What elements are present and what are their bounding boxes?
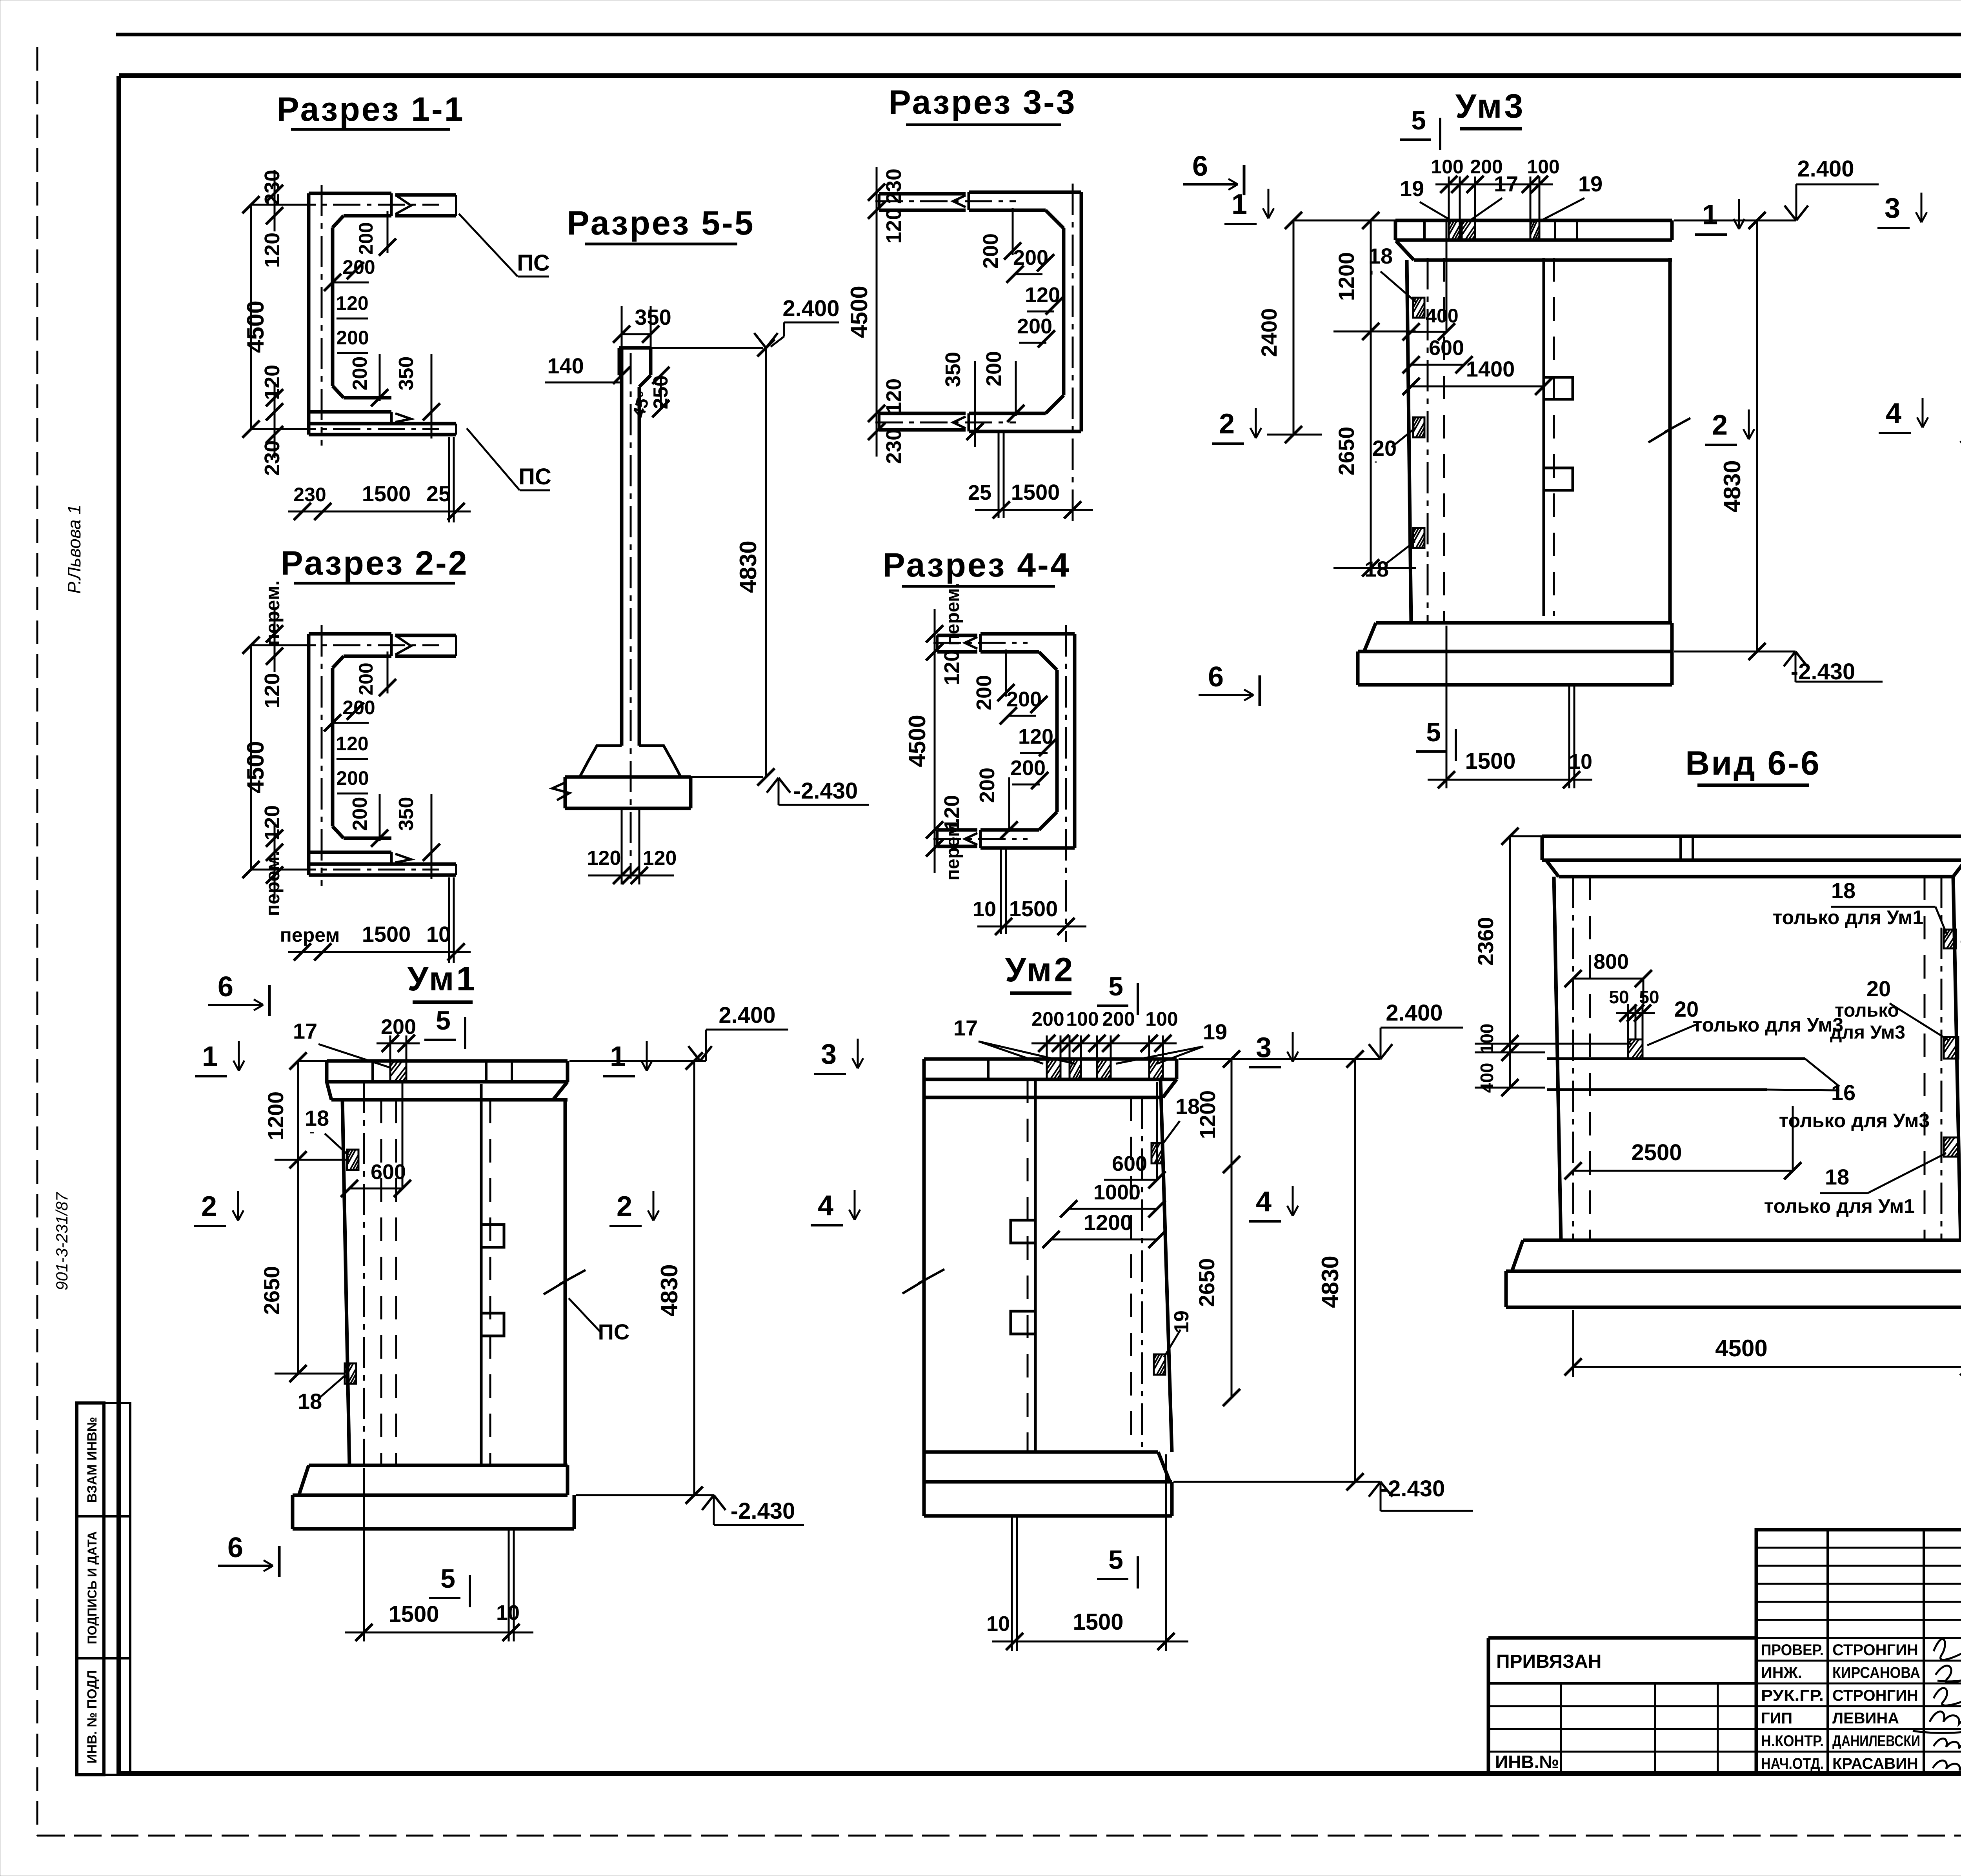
- bottom joint wedge: [390, 852, 393, 864]
- svg-text:200: 200: [336, 767, 369, 789]
- svg-text:1200: 1200: [1084, 1210, 1133, 1235]
- svg-text:120: 120: [940, 650, 964, 685]
- svg-text:200: 200: [972, 675, 996, 710]
- base slab break: [552, 782, 569, 800]
- main frame top: [119, 73, 1961, 78]
- svg-text:50: 50: [1639, 987, 1659, 1007]
- Vid 6-6 left wall: [1554, 877, 1561, 1240]
- Um2 level 2.400: [1179, 1058, 1381, 1060]
- svg-text:230: 230: [882, 169, 906, 204]
- main frame left: [116, 76, 121, 1774]
- Um3 left dim chains: [1370, 220, 1372, 331]
- top precast part: [879, 192, 966, 196]
- bottom slab centerline: [288, 428, 439, 430]
- svg-text:СТРОНГИН: СТРОНГИН: [1832, 1687, 1918, 1704]
- svg-text:5: 5: [1411, 106, 1426, 135]
- gap lines: [448, 437, 450, 522]
- top flange outer: [309, 632, 391, 636]
- svg-text:Разрез 3-3: Разрез 3-3: [888, 84, 1076, 121]
- bottom inner chamfer: [333, 826, 344, 838]
- svg-text:120: 120: [260, 233, 284, 268]
- wall axis dash-dot: [321, 185, 323, 446]
- svg-text:6: 6: [1208, 661, 1224, 693]
- svg-text:ПС: ПС: [598, 1319, 630, 1344]
- svg-text:1500: 1500: [1011, 480, 1060, 504]
- svg-text:Разрез 4-4: Разрез 4-4: [882, 546, 1070, 584]
- Um3 slab plates: [1449, 220, 1460, 240]
- Razrez 5-5 footing shoes: [580, 746, 622, 777]
- bottom PS slab: [309, 422, 456, 426]
- svg-text:10: 10: [426, 922, 451, 946]
- Um1 slab underside: [331, 1098, 568, 1102]
- svg-text:200: 200: [1031, 1008, 1064, 1030]
- Um1 middle pair: [480, 1084, 483, 1465]
- svg-text:19: 19: [1170, 1310, 1193, 1333]
- svg-text:2650: 2650: [1334, 427, 1359, 476]
- bottom precast part: [879, 428, 966, 432]
- Vid 6-6 foundation base: [1504, 1271, 1508, 1307]
- Um1 left wall outer: [342, 1100, 349, 1465]
- band centerlines: [933, 642, 1028, 644]
- svg-text:2500: 2500: [1631, 1140, 1682, 1165]
- Razrez 5-5 base slab: [565, 775, 691, 779]
- Vid 6-6 dims 50 50: [1627, 1004, 1629, 1039]
- Um3 key notch upper: [1544, 377, 1573, 399]
- Um1 key notch lower: [481, 1313, 504, 1336]
- bottom gap lines: [1000, 848, 1002, 934]
- Razrez 5-5 centerline: [630, 353, 632, 879]
- svg-text:20: 20: [1866, 976, 1891, 1001]
- bottom gap lines: [998, 431, 1000, 518]
- svg-text:120: 120: [1025, 283, 1060, 307]
- svg-text:2.400: 2.400: [782, 296, 839, 321]
- svg-text:5: 5: [436, 1006, 451, 1035]
- top PS slab part: [395, 193, 456, 197]
- Um2 top dim chain: [1046, 1035, 1048, 1059]
- Um2 foundation base: [922, 1452, 926, 1516]
- svg-text:Вид 6-6: Вид 6-6: [1685, 744, 1821, 782]
- svg-text:10: 10: [1569, 750, 1592, 773]
- left dim chain: [274, 610, 276, 672]
- Vid 6-6 shelf lines: [1547, 1057, 1805, 1060]
- Vid 6-6 slab underside: [1559, 875, 1953, 879]
- svg-text:1200: 1200: [1334, 252, 1359, 301]
- svg-text:230: 230: [293, 484, 326, 506]
- top joint wedge: [390, 193, 393, 216]
- svg-text:10: 10: [496, 1601, 520, 1625]
- svg-text:1000: 1000: [1093, 1181, 1141, 1204]
- svg-text:1500: 1500: [362, 922, 411, 946]
- svg-text:3: 3: [1885, 193, 1900, 224]
- Um3 top dim chain: [1448, 177, 1450, 220]
- svg-text:10: 10: [986, 1612, 1010, 1636]
- svg-text:ПС: ПС: [518, 464, 551, 489]
- top band outer: [969, 191, 1081, 194]
- svg-text:Ум1: Ум1: [407, 960, 478, 998]
- label PS top: [459, 214, 518, 277]
- svg-text:120: 120: [336, 733, 368, 755]
- Um3 right edge break: [1648, 418, 1690, 442]
- Vid 6-6 dim 2500: [1573, 1170, 1793, 1172]
- top inner chamfer: [333, 216, 344, 227]
- Um3 wall plates: [1413, 298, 1424, 318]
- Um1 wall plates: [347, 1150, 358, 1170]
- svg-text:ЛЕВИНА: ЛЕВИНА: [1832, 1710, 1899, 1727]
- bottom band outer: [980, 846, 1075, 850]
- Um2 bottom dim: [1011, 1516, 1013, 1651]
- svg-text:только: только: [1835, 1000, 1899, 1021]
- Um3 foundation pad: [1376, 621, 1672, 625]
- bottom dim chain: [975, 509, 1093, 511]
- svg-text:только для Ум3: только для Ум3: [1693, 1014, 1843, 1036]
- svg-text:20: 20: [1372, 436, 1397, 460]
- left dim chain: [876, 167, 878, 457]
- Um2 top slab: [924, 1057, 1177, 1061]
- Um1 top slab: [327, 1059, 568, 1063]
- svg-text:200: 200: [381, 1015, 416, 1039]
- Vid 6-6 dim 4500: [1573, 1366, 1961, 1368]
- svg-text:ПРОВЕР.: ПРОВЕР.: [1761, 1641, 1824, 1659]
- svg-text:200: 200: [982, 351, 1006, 386]
- Vid 6-6 top slab: [1542, 835, 1961, 838]
- svg-text:4500: 4500: [904, 715, 930, 767]
- svg-text:2.400: 2.400: [1386, 1000, 1443, 1026]
- Um2 left outer: [922, 1079, 926, 1452]
- svg-text:200: 200: [979, 233, 1002, 269]
- svg-text:19: 19: [1400, 176, 1424, 201]
- svg-text:140: 140: [547, 353, 584, 378]
- svg-text:5: 5: [1108, 972, 1123, 1001]
- Um1 left wall hidden: [363, 1082, 365, 1465]
- wall outer line: [307, 634, 311, 875]
- bottom joint wedge: [979, 830, 982, 848]
- Um3 middle vertical dashed: [1553, 258, 1555, 616]
- Um2 middle pair: [1034, 1079, 1037, 1452]
- svg-text:ПОДПИСЬ И ДАТА: ПОДПИСЬ И ДАТА: [85, 1531, 99, 1644]
- Um3 bottom dim 1500 10: [1446, 626, 1448, 788]
- svg-text:для Ум3: для Ум3: [1830, 1022, 1905, 1043]
- Um2 label leaders: [979, 1041, 1043, 1064]
- svg-text:только для Ум3: только для Ум3: [1779, 1110, 1930, 1132]
- svg-text:1400: 1400: [1466, 357, 1515, 381]
- svg-text:4830: 4830: [735, 540, 761, 593]
- Razrez 5-5 column cap: [619, 346, 651, 350]
- svg-text:4830: 4830: [1719, 460, 1745, 512]
- svg-text:перем.: перем.: [262, 851, 284, 916]
- wall centerline: [1065, 625, 1067, 942]
- Um2 slab underside: [924, 1096, 1163, 1099]
- Vid 6-6 right wall plates: [1944, 930, 1956, 948]
- svg-text:230: 230: [260, 440, 284, 476]
- bottom dim chain: [977, 926, 1086, 928]
- svg-text:СТРОНГИН: СТРОНГИН: [1832, 1641, 1918, 1659]
- top band inner: [980, 650, 1039, 654]
- title block signature table: [1756, 1530, 1961, 1774]
- svg-text:100: 100: [1477, 1024, 1497, 1054]
- inner chamfers: [1039, 652, 1057, 670]
- top flange outer: [309, 192, 391, 195]
- svg-text:ПС: ПС: [517, 250, 550, 276]
- svg-text:200: 200: [349, 797, 371, 831]
- label PS bottom: [467, 428, 520, 490]
- Um1 dim 4830: [693, 1061, 695, 1495]
- bottom flange inner: [344, 396, 391, 400]
- svg-text:600: 600: [1429, 336, 1464, 360]
- top band inner: [969, 209, 1046, 212]
- wall axis dash-dot: [321, 625, 323, 886]
- Vid 6-6 middle plate: [1628, 1039, 1643, 1059]
- svg-text:ИНВ.№: ИНВ.№: [1495, 1752, 1559, 1772]
- Um2 key notch lower: [1011, 1311, 1035, 1334]
- sheet top edge line: [116, 33, 1961, 36]
- svg-text:350: 350: [395, 357, 418, 391]
- svg-text:ПРИВЯЗАН: ПРИВЯЗАН: [1496, 1651, 1601, 1672]
- wall centerline: [1072, 184, 1074, 526]
- svg-text:2360: 2360: [1473, 917, 1498, 966]
- dim 250 rotated: [660, 375, 662, 409]
- svg-text:18: 18: [1831, 878, 1855, 903]
- dim 350 over cap: [622, 333, 651, 335]
- svg-text:17: 17: [953, 1015, 978, 1040]
- level mark 2.400 top: [651, 347, 763, 349]
- left dim chain: [274, 170, 276, 231]
- svg-text:50: 50: [1609, 987, 1629, 1007]
- Um2 foundation pad: [924, 1450, 1158, 1454]
- top flange centerline: [288, 644, 439, 646]
- svg-text:200: 200: [336, 327, 369, 349]
- main frame bottom: [119, 1771, 1961, 1776]
- svg-text:120: 120: [882, 208, 906, 244]
- svg-text:КИРСАНОВА: КИРСАНОВА: [1832, 1664, 1920, 1681]
- dimension 4830: [765, 348, 767, 777]
- svg-text:18: 18: [1825, 1165, 1849, 1189]
- bottom band inner: [980, 828, 1039, 832]
- Um2 wall plates: [1151, 1143, 1163, 1163]
- svg-text:25: 25: [968, 481, 991, 504]
- svg-text:-2.430: -2.430: [731, 1498, 795, 1524]
- Um3 dim 600: [1411, 364, 1464, 366]
- svg-text:18: 18: [1364, 557, 1389, 581]
- Um3 top slab: [1395, 219, 1672, 222]
- svg-text:4500: 4500: [846, 286, 872, 338]
- svg-text:100: 100: [1431, 156, 1463, 178]
- title block left sub table: [1488, 1636, 1756, 1640]
- svg-text:1500: 1500: [388, 1601, 439, 1627]
- svg-text:800: 800: [1594, 950, 1629, 973]
- bottom dim chain: [288, 951, 471, 953]
- Um3 foundation base: [1356, 651, 1360, 685]
- svg-text:только для Ум1: только для Ум1: [1764, 1195, 1915, 1217]
- svg-text:100: 100: [1145, 1008, 1178, 1030]
- svg-text:Разрез 5-5: Разрез 5-5: [567, 204, 755, 242]
- svg-text:18: 18: [305, 1106, 329, 1130]
- Um2 left break: [902, 1269, 944, 1294]
- svg-text:Н.КОНТР.: Н.КОНТР.: [1761, 1732, 1824, 1750]
- sheet outer dashed border left: [36, 47, 38, 1836]
- svg-text:120: 120: [1018, 725, 1053, 748]
- svg-text:230: 230: [260, 170, 284, 205]
- svg-text:200: 200: [1010, 756, 1046, 780]
- svg-text:4830: 4830: [656, 1264, 682, 1316]
- top flange centerline: [288, 204, 439, 206]
- svg-text:НАЧ.ОТД.: НАЧ.ОТД.: [1761, 1755, 1824, 1772]
- left dim chain: [934, 609, 936, 873]
- Um2 slab plates: [1047, 1059, 1061, 1079]
- svg-text:120: 120: [882, 378, 906, 414]
- svg-text:перем: перем: [280, 924, 340, 946]
- bottom inner chamfer: [333, 386, 344, 398]
- right wall inner: [1055, 670, 1059, 812]
- svg-text:200: 200: [1017, 315, 1052, 338]
- svg-text:Р.Львова 1: Р.Львова 1: [64, 504, 84, 594]
- svg-text:2: 2: [201, 1191, 217, 1222]
- left stamp boxes: [77, 1403, 104, 1775]
- level mark -2.430: [691, 776, 763, 778]
- svg-text:4500: 4500: [242, 300, 269, 353]
- bottom band outer: [969, 430, 1081, 433]
- Um3 level 2.400: [1674, 220, 1796, 222]
- wall inner face: [331, 227, 335, 386]
- right wall inner: [1062, 228, 1066, 395]
- svg-text:2: 2: [617, 1191, 632, 1222]
- svg-text:19: 19: [1203, 1019, 1227, 1044]
- top flange inner: [344, 655, 391, 658]
- svg-text:2.400: 2.400: [1797, 156, 1854, 182]
- bottom joint wedge: [968, 413, 970, 431]
- svg-text:4500: 4500: [242, 741, 269, 793]
- dimension 4500 vertical: [250, 205, 252, 429]
- svg-text:25: 25: [426, 481, 451, 506]
- svg-text:Ум3: Ум3: [1455, 87, 1526, 125]
- svg-text:только для Ум1: только для Ум1: [1773, 906, 1923, 928]
- svg-text:4830: 4830: [1317, 1256, 1343, 1308]
- right wall outer: [1080, 192, 1083, 431]
- svg-text:120: 120: [587, 847, 621, 870]
- top precast part: [937, 634, 977, 637]
- svg-text:200: 200: [349, 357, 371, 391]
- Um2 level -2.430: [1173, 1481, 1381, 1483]
- sheet outer dashed border bottom: [37, 1835, 1961, 1837]
- dimension 4500 vertical: [250, 645, 252, 870]
- svg-text:-2.430: -2.430: [793, 778, 858, 804]
- Um3 dim 1400: [1411, 386, 1545, 388]
- Um3 left wall outer: [1407, 260, 1411, 623]
- top flange inner: [344, 214, 391, 218]
- svg-text:1200: 1200: [1195, 1090, 1220, 1139]
- svg-text:5: 5: [440, 1564, 455, 1594]
- svg-text:перем.: перем.: [942, 583, 963, 646]
- svg-text:100: 100: [1527, 156, 1559, 178]
- svg-text:1500: 1500: [362, 481, 411, 506]
- svg-text:200: 200: [1102, 1008, 1135, 1030]
- svg-text:-2.430: -2.430: [1381, 1476, 1445, 1501]
- svg-text:18: 18: [298, 1389, 322, 1414]
- top joint wedge: [968, 192, 970, 210]
- bottom flange inner: [344, 837, 391, 840]
- svg-text:3: 3: [821, 1039, 837, 1070]
- bottom dim chain: [288, 511, 471, 513]
- top joint wedge: [390, 634, 393, 656]
- svg-text:350: 350: [941, 352, 965, 387]
- bottom joint wedge: [390, 412, 393, 424]
- svg-text:200: 200: [355, 662, 377, 695]
- Um3 left wall hidden lines: [1427, 258, 1429, 623]
- bottom dims 120 120: [621, 808, 623, 884]
- svg-text:1: 1: [610, 1041, 626, 1072]
- top PS slab part: [395, 634, 456, 637]
- Um2 key notch upper: [1011, 1220, 1035, 1243]
- svg-text:перем.: перем.: [942, 818, 963, 881]
- Um1 bottom dim: [363, 1468, 365, 1641]
- svg-text:1500: 1500: [1073, 1609, 1123, 1635]
- Um1 left dim chain: [297, 1061, 299, 1160]
- Um3 key notch lower: [1544, 468, 1573, 490]
- Um1 level -2.430: [576, 1494, 714, 1496]
- svg-text:350: 350: [635, 305, 671, 329]
- wall inner face: [331, 668, 335, 826]
- svg-text:Разрез 2-2: Разрез 2-2: [280, 544, 468, 582]
- svg-text:600: 600: [1112, 1152, 1147, 1175]
- Um1 foundation base: [291, 1495, 295, 1529]
- svg-text:ВЗАМ ИНВ№: ВЗАМ ИНВ№: [85, 1417, 100, 1503]
- svg-text:5: 5: [1426, 717, 1441, 747]
- svg-text:4500: 4500: [1715, 1335, 1767, 1361]
- Um3 slab underside: [1414, 258, 1672, 262]
- svg-text:6: 6: [1192, 151, 1208, 182]
- Um1 right outer edge: [564, 1100, 567, 1465]
- Um1 dim 200 top: [389, 1035, 391, 1061]
- Um1 key notch upper: [481, 1225, 504, 1247]
- Um2 right outer taper: [1161, 1079, 1172, 1452]
- svg-text:перем.: перем.: [262, 580, 284, 646]
- svg-text:10: 10: [973, 897, 996, 921]
- svg-text:6: 6: [227, 1532, 243, 1563]
- Um1 dim 600: [349, 1188, 402, 1190]
- svg-text:200: 200: [355, 222, 377, 255]
- inner chamfers: [1046, 210, 1064, 228]
- Um1 slab plate: [390, 1061, 406, 1082]
- Um3 dim 4830: [1756, 220, 1758, 651]
- Vid 6-6 left dim chain: [1509, 836, 1511, 1044]
- svg-text:2400: 2400: [1257, 308, 1281, 357]
- svg-text:120: 120: [643, 847, 677, 870]
- bottom PS slab: [309, 862, 456, 866]
- svg-text:4: 4: [1886, 398, 1901, 429]
- Um3 dim 400: [1411, 331, 1446, 333]
- svg-text:ИНЖ.: ИНЖ.: [1761, 1664, 1802, 1681]
- bottom flange outer: [309, 410, 391, 414]
- svg-text:ИНВ. № ПОДЛ: ИНВ. № ПОДЛ: [85, 1670, 100, 1763]
- svg-text:1500: 1500: [1009, 896, 1058, 921]
- Um2 right dim chain: [1231, 1059, 1233, 1165]
- Razrez 5-5 wall: [620, 348, 624, 746]
- svg-text:Разрез 1-1: Разрез 1-1: [277, 91, 464, 128]
- Um4 left edge break: [1960, 418, 1961, 442]
- Um3 right outer edge: [1668, 258, 1672, 623]
- svg-text:45°: 45°: [629, 389, 655, 420]
- svg-text:ГИП: ГИП: [1761, 1710, 1792, 1727]
- top inner chamfer: [333, 656, 344, 668]
- svg-text:230: 230: [882, 429, 906, 464]
- Vid 6-6 foundation pad: [1523, 1239, 1961, 1242]
- svg-text:250: 250: [649, 375, 672, 409]
- svg-text:200: 200: [975, 768, 999, 803]
- wall outer line: [307, 193, 311, 435]
- Um1 foundation pad: [309, 1464, 568, 1467]
- svg-text:4: 4: [1256, 1186, 1272, 1217]
- Vid 6-6 right wall: [1924, 877, 1926, 1240]
- top band outer: [980, 632, 1075, 636]
